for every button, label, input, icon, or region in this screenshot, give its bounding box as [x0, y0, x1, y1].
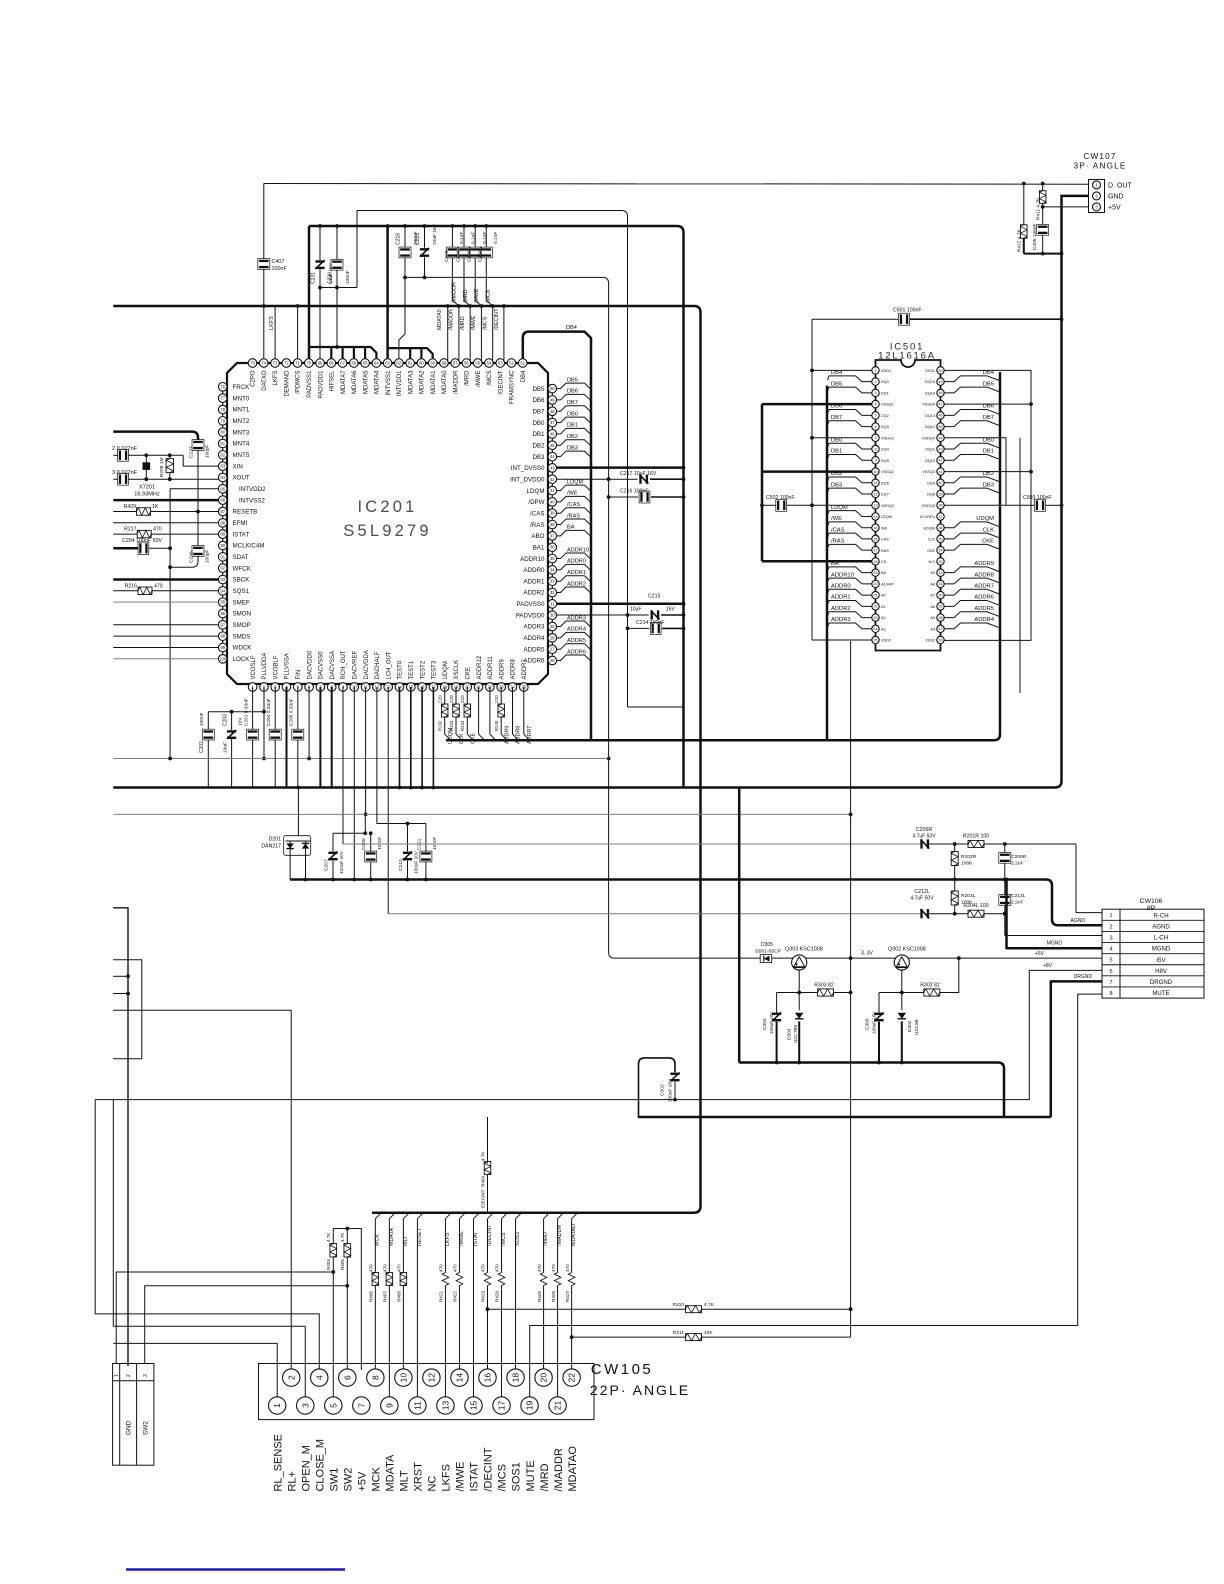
svg-text:100nF: 100nF	[345, 270, 351, 284]
svg-text:330uF 16V: 330uF 16V	[668, 1078, 673, 1102]
svg-text:R427: R427	[565, 1291, 570, 1302]
wire bottom net column x=489.9	[489, 687, 491, 734]
svg-text:/DECINT: /DECINT	[481, 1189, 486, 1208]
wire bottom net column x=512.5 ADDR8	[512, 687, 514, 734]
svg-text:/MADDR: /MADDR	[449, 309, 455, 330]
svg-text:R407: R407	[383, 1291, 388, 1302]
svg-text:ABO: ABO	[531, 533, 544, 540]
svg-text:UDQM: UDQM	[976, 516, 994, 522]
svg-text:UZ3.9B: UZ3.9B	[914, 1019, 919, 1035]
svg-text:DQ9: DQ9	[927, 481, 935, 485]
wire /DECINT pin 53 riser to bus	[503, 306, 505, 364]
svg-text:DB6: DB6	[983, 404, 994, 410]
svg-text:ADDR7: ADDR7	[974, 584, 994, 590]
svg-text:37: 37	[938, 515, 942, 519]
svg-text:18: 18	[873, 560, 877, 564]
wire ground bus y=787.5 up to CW107 GND	[113, 196, 1088, 788]
wire R channel line y=844	[343, 843, 920, 845]
wire CW105 pin 21 column /MADDR	[558, 1213, 564, 1219]
svg-text:VSSQ1: VSSQ1	[881, 403, 894, 407]
svg-text:C502 100nF: C502 100nF	[766, 495, 795, 501]
svg-text:3. 3V: 3. 3V	[861, 951, 873, 957]
svg-text:VSS2: VSS2	[925, 639, 935, 643]
resistor R204L 100	[968, 910, 984, 917]
svg-text:16: 16	[483, 1373, 493, 1383]
wire R303 to +5V rail	[834, 992, 851, 994]
svg-text:100pF: 100pF	[205, 445, 210, 458]
svg-text:TEST0: TEST0	[398, 660, 404, 679]
svg-text:A7: A7	[930, 594, 935, 598]
svg-text:10: 10	[873, 470, 877, 474]
svg-text:C215: C215	[415, 233, 421, 245]
svg-text:20: 20	[539, 1373, 549, 1383]
svg-text:43: 43	[550, 465, 555, 470]
capacitor C216 100nF row y=497	[609, 496, 638, 498]
wire PADVDD0 pin 30 row y=615 with capacitor C215 10uF 16V	[557, 614, 649, 616]
svg-text:470: 470	[481, 1264, 486, 1272]
svg-text:SMDS: SMDS	[233, 633, 251, 640]
zener D303 UZ2.7B	[798, 993, 800, 1011]
svg-text:83: 83	[220, 464, 225, 469]
svg-text:DQ14: DQ14	[925, 391, 935, 395]
capacitor C206R 4.7uF 50V	[920, 839, 929, 848]
capacitor C213L 2.2nF	[1004, 880, 1006, 895]
resistor R412 4.7K	[1023, 184, 1025, 225]
svg-text:RESET: RESET	[417, 1227, 423, 1246]
svg-text:99: 99	[220, 645, 225, 650]
svg-text:DB3: DB3	[831, 482, 842, 488]
wire bottom net column x=523.8 ADDR7	[523, 687, 525, 734]
svg-text:MDATA0: MDATA0	[437, 309, 443, 330]
svg-text:RCH_OUT: RCH_OUT	[341, 650, 347, 679]
svg-text:24: 24	[873, 627, 877, 631]
svg-text:/MCS: /MCS	[487, 371, 493, 386]
svg-text:VCOBLF: VCOBLF	[273, 655, 279, 679]
wire PADVSS1 pin 70 thick riser	[308, 226, 311, 364]
svg-text:43: 43	[938, 447, 942, 451]
capacitor C230 lower lead to ground comb	[336, 288, 338, 348]
svg-text:59: 59	[430, 361, 435, 366]
svg-text:VDDQ3: VDDQ3	[922, 504, 935, 508]
capacitor C304 100uF 10V	[776, 993, 778, 1013]
svg-text:11: 11	[874, 481, 878, 485]
svg-text:79: 79	[220, 418, 225, 423]
svg-text:4.7uF 50V: 4.7uF 50V	[910, 896, 934, 902]
resistor R303 82	[818, 989, 834, 996]
svg-text:ADDR11: ADDR11	[488, 656, 494, 680]
svg-text:BA: BA	[881, 571, 887, 575]
svg-text:78: 78	[220, 407, 225, 412]
svg-text:WE: WE	[881, 526, 888, 530]
svg-text:17: 17	[497, 1401, 507, 1411]
svg-text:C207: C207	[323, 859, 329, 871]
wire MUTE into CW106 pin8	[530, 994, 1102, 1397]
svg-text:33: 33	[550, 579, 555, 584]
svg-text:MDATA: MDATA	[389, 1228, 395, 1246]
svg-text:22: 22	[873, 605, 877, 609]
wire DACVSS0 pin 7 thick	[319, 687, 321, 788]
wire VSSQ4 pin 47 tap	[944, 403, 1031, 405]
wire INT_DVSS0 pin 43 thick to x=683.5	[557, 466, 684, 469]
wire +8V into CW106 pin6 via x=1029.3 and rail y=1099.6	[95, 970, 1102, 1099]
svg-text:CKE: CKE	[471, 733, 477, 744]
svg-text:VSSQ4: VSSQ4	[922, 403, 935, 407]
svg-text:N.C/RFU: N.C/RFU	[920, 515, 936, 519]
svg-text:DEMAND: DEMAND	[284, 370, 290, 397]
svg-text:470: 470	[565, 1264, 570, 1272]
svg-text:C231: C231	[310, 272, 316, 284]
svg-text:16V: 16V	[238, 717, 244, 726]
wire transistor area left rail x=739.2	[738, 788, 741, 1063]
svg-text:SMEF: SMEF	[233, 599, 250, 606]
svg-text:85: 85	[220, 486, 225, 491]
svg-text:8P: 8P	[1147, 905, 1156, 912]
svg-text:/WE: /WE	[567, 491, 578, 497]
svg-text:DQ12: DQ12	[925, 425, 935, 429]
svg-text:32: 32	[550, 590, 555, 595]
svg-text:ADDR6: ADDR6	[974, 595, 994, 601]
wire OPEN_M line to pin 3	[112, 1100, 114, 1327]
svg-text:470: 470	[439, 1264, 444, 1272]
svg-text:+5V: +5V	[1035, 951, 1045, 957]
wire left rail top thick y=431.6 with corner to C227	[113, 432, 198, 440]
wire DACVDD0 pin 6	[308, 687, 310, 759]
wire CLOSE_M line to pin 4	[95, 1100, 319, 1370]
svg-text:31: 31	[938, 582, 942, 586]
svg-text:CW105: CW105	[591, 1361, 654, 1378]
wire PLLVSSA pin 4 thick to ground bus	[286, 687, 288, 788]
capacitor C208 100nF	[370, 833, 372, 852]
wire DACVDDA pin 11	[365, 687, 367, 814]
svg-text:3P· ANGLE: 3P· ANGLE	[1073, 162, 1126, 171]
wire DRGND thick rail y=1117	[639, 1116, 1051, 1119]
svg-text:CKE: CKE	[982, 539, 994, 545]
wire ground comb pins 64-68	[309, 347, 377, 364]
svg-text:DQ5: DQ5	[881, 459, 889, 463]
svg-text:DACVDDA: DACVDDA	[364, 650, 370, 679]
connector left 3P (SW1 GND SW2)	[113, 1364, 154, 1466]
svg-text:NC: NC	[427, 1476, 439, 1492]
svg-text:68: 68	[329, 361, 334, 366]
svg-text:EFMI: EFMI	[233, 520, 248, 527]
svg-text:R233: R233	[449, 720, 454, 731]
svg-text:47: 47	[938, 402, 942, 406]
svg-text:30: 30	[938, 593, 942, 597]
svg-text:C221: C221	[455, 250, 461, 262]
svg-text:100pF: 100pF	[205, 550, 210, 563]
svg-text:D201: D201	[269, 837, 282, 843]
capacitor C202 100nF	[207, 712, 209, 730]
svg-text:50: 50	[550, 386, 555, 391]
svg-text:C302: C302	[660, 1084, 666, 1096]
svg-text:R216: R216	[125, 583, 138, 589]
svg-text:MDATA4: MDATA4	[375, 370, 381, 394]
svg-text:DB1: DB1	[567, 423, 578, 429]
wire DATXO / D.OUT line y=183.5	[264, 183, 1089, 186]
svg-text:15: 15	[469, 1401, 479, 1411]
svg-text:DQ8: DQ8	[927, 493, 935, 497]
wire LOCK pin 100	[113, 658, 218, 660]
capacitor C223 0.1nF	[474, 226, 476, 247]
svg-text:2.2nF: 2.2nF	[1011, 861, 1024, 867]
svg-text:ADDR9: ADDR9	[974, 561, 994, 567]
svg-text:13: 13	[441, 1401, 451, 1411]
svg-text:/MADDR: /MADDR	[553, 1448, 565, 1491]
svg-text:MNT1: MNT1	[233, 407, 250, 414]
svg-text:62: 62	[397, 361, 402, 366]
svg-text:CKE: CKE	[466, 667, 472, 679]
wire DACVREF pin 10 to AGND rail	[353, 687, 355, 880]
svg-text:CKE: CKE	[927, 549, 935, 553]
svg-text:DQ4: DQ4	[881, 448, 889, 452]
svg-text:C218: C218	[395, 233, 401, 245]
svg-text:22P· ANGLE: 22P· ANGLE	[590, 1382, 690, 1398]
svg-text:ISTAT: ISTAT	[233, 531, 250, 538]
svg-text:A0: A0	[881, 594, 886, 598]
svg-text:54: 54	[487, 361, 492, 366]
svg-text:DQ3: DQ3	[881, 425, 889, 429]
svg-text:ADDR10: ADDR10	[520, 556, 545, 563]
svg-text:4: 4	[1109, 947, 1112, 953]
svg-text:LOCK: LOCK	[233, 656, 251, 663]
svg-text:4.7K: 4.7K	[326, 1232, 331, 1242]
wire bottom net column x=478.6	[478, 687, 480, 734]
svg-text:6: 6	[342, 1375, 352, 1380]
svg-text:6: 6	[1109, 969, 1112, 975]
svg-text:R209 1M: R209 1M	[159, 458, 165, 477]
wire CW107 +5V stub	[1043, 206, 1089, 208]
wire x=627.5 to x=683.5 link y=707	[628, 706, 684, 708]
svg-text:CAS: CAS	[881, 538, 889, 542]
svg-text:SBCK: SBCK	[233, 577, 251, 584]
wire VDD decoupling rail y=226 to x=683.5 vertical	[309, 226, 684, 788]
svg-text:PADVDD0: PADVDD0	[516, 612, 545, 619]
svg-text:DB0: DB0	[532, 420, 545, 427]
capacitor C303 100uF 10V	[878, 993, 880, 1013]
svg-text:XSCLK: XSCLK	[454, 660, 460, 680]
svg-text:96: 96	[220, 611, 225, 616]
svg-text:PLLVSSA: PLLVSSA	[285, 653, 291, 679]
capacitor C215 10uF 16V (top)	[424, 226, 426, 248]
svg-text:DB4: DB4	[521, 370, 527, 382]
svg-text:4: 4	[874, 402, 876, 406]
svg-text:R429: R429	[124, 504, 137, 510]
svg-text:DB7: DB7	[532, 408, 545, 415]
svg-text:C217 10uF 16V: C217 10uF 16V	[620, 471, 657, 477]
svg-text:FIN: FIN	[296, 670, 302, 680]
svg-text:5: 5	[1109, 958, 1112, 964]
svg-text:MDATA7: MDATA7	[341, 370, 347, 394]
svg-text:L-CH: L-CH	[1154, 935, 1168, 942]
svg-text:/PDMCS: /PDMCS	[296, 371, 302, 394]
svg-text:91: 91	[220, 554, 225, 559]
svg-text:ADDR3: ADDR3	[524, 624, 546, 631]
svg-text:7: 7	[1109, 980, 1112, 986]
svg-text:C214 100nF: C214 100nF	[636, 620, 665, 626]
svg-text:C501 100nF: C501 100nF	[893, 308, 922, 314]
svg-text:88: 88	[220, 520, 225, 525]
svg-text:R422: R422	[453, 1291, 458, 1302]
svg-text:R404: R404	[326, 1259, 331, 1270]
svg-text:15: 15	[873, 526, 877, 530]
svg-text:C215: C215	[648, 594, 661, 600]
svg-text:SQS1: SQS1	[233, 588, 250, 595]
wire R412/C405 ground tie y=253.6	[1024, 253, 1062, 255]
capacitor C221 0.1nF	[463, 226, 465, 247]
svg-text:C226: C226	[189, 551, 195, 563]
svg-text:DB7: DB7	[831, 415, 842, 421]
svg-text:A9: A9	[930, 571, 935, 575]
svg-text:/MWE: /MWE	[476, 371, 482, 387]
svg-text:C2PO: C2PO	[251, 370, 257, 387]
capacitor C212L 4.7uF 50V	[920, 909, 929, 918]
svg-text:29: 29	[938, 605, 942, 609]
wire CW105 pin 14 column /MWE	[459, 1213, 465, 1219]
wire DACVSSA pin 8 thick	[331, 687, 333, 788]
svg-text:/MWE: /MWE	[455, 1462, 467, 1492]
svg-text:DACHALF: DACHALF	[375, 651, 381, 679]
svg-text:470: 470	[453, 1264, 458, 1272]
svg-text:74: 74	[261, 361, 266, 366]
svg-text:XOUT: XOUT	[233, 475, 250, 482]
svg-text:51: 51	[520, 361, 525, 366]
svg-text:VSSQ2: VSSQ2	[881, 470, 894, 474]
svg-text:73: 73	[273, 361, 278, 366]
svg-text:19: 19	[873, 571, 877, 575]
svg-text:DATXO: DATXO	[262, 370, 268, 391]
svg-text:SW2: SW2	[143, 1421, 150, 1435]
svg-text:7: 7	[356, 1403, 366, 1408]
capacitor C214 100nF row y=628.4	[628, 627, 650, 629]
svg-text:40: 40	[550, 499, 555, 504]
wire MDATA0 pin 58 riser to bus	[447, 306, 449, 364]
svg-text:26: 26	[938, 638, 942, 642]
svg-text:9: 9	[874, 459, 876, 463]
wire +5V vertical x=850.6	[850, 641, 852, 1337]
svg-text:/MADDR: /MADDR	[557, 1225, 563, 1246]
svg-text:3: 3	[300, 1403, 310, 1408]
crystal X7201 16.93MHz	[145, 455, 147, 462]
wire CW105 pin 11 column RESET	[417, 1213, 423, 1219]
svg-text:IC201: IC201	[357, 498, 417, 516]
svg-text:45: 45	[938, 425, 942, 429]
svg-text:DACVREF: DACVREF	[353, 650, 359, 679]
wire CW105 pin 17 column /MCS	[502, 1213, 508, 1219]
svg-text:/CAS: /CAS	[567, 502, 580, 508]
svg-text:+8V: +8V	[1043, 963, 1053, 969]
svg-text:DB3: DB3	[532, 454, 545, 461]
svg-text:ADDR7: ADDR7	[522, 658, 528, 679]
svg-text:FRCK: FRCK	[233, 384, 251, 391]
svg-text:3: 3	[1109, 935, 1112, 941]
svg-text:16.93MHz: 16.93MHz	[134, 492, 160, 498]
wire CW105 pin 13 column LKFS	[445, 1213, 451, 1219]
wire RL+ from left structure to pin 2	[113, 1010, 291, 1370]
svg-text:DB3: DB3	[983, 482, 994, 488]
wire bottom net column x=501.2 ADDR9	[500, 687, 502, 704]
svg-text:46: 46	[550, 431, 555, 436]
svg-text:48: 48	[938, 391, 942, 395]
svg-text:8: 8	[1109, 991, 1112, 997]
svg-text:/MADDR: /MADDR	[453, 370, 459, 394]
resistor R203L 100K	[954, 880, 956, 892]
wire analog rail y=813.5	[113, 813, 850, 815]
svg-text:DQ1: DQ1	[881, 391, 889, 395]
svg-text:C206R: C206R	[916, 827, 932, 833]
svg-text:UZ2.7B9: UZ2.7B9	[793, 1024, 798, 1043]
svg-text:4.7K: 4.7K	[340, 1232, 345, 1242]
svg-text:55: 55	[475, 361, 480, 366]
svg-text:4.7K: 4.7K	[481, 1151, 486, 1161]
wire CW105 pin 15 column ISTAT	[473, 1213, 479, 1219]
svg-text:MCK: MCK	[371, 1466, 383, 1491]
svg-text:TEST3: TEST3	[432, 660, 438, 679]
svg-text:ISTAT: ISTAT	[473, 1231, 479, 1246]
svg-text:100nF: 100nF	[272, 266, 288, 272]
svg-text:CW107: CW107	[1083, 152, 1116, 161]
diode D201 DAN217	[297, 788, 299, 836]
svg-text:21: 21	[873, 593, 877, 597]
svg-text:C303: C303	[864, 1018, 870, 1030]
svg-text:RAS: RAS	[881, 549, 889, 553]
svg-text:ADDR8: ADDR8	[516, 726, 522, 744]
wire bottom net column x=467.3 CKE	[466, 687, 468, 704]
wire IC501 VSS loop right x=1031	[944, 370, 1031, 640]
svg-text:LDQM: LDQM	[567, 479, 584, 485]
memory IC501 body	[876, 360, 941, 651]
svg-text:16V: 16V	[666, 606, 676, 612]
svg-text:VDD1: VDD1	[881, 369, 891, 373]
svg-text:DACVDD0: DACVDD0	[307, 650, 313, 679]
svg-text:D303: D303	[787, 1028, 793, 1040]
svg-text:6: 6	[874, 425, 876, 429]
svg-text:3: 3	[874, 391, 876, 395]
svg-text:67: 67	[340, 361, 345, 366]
resistor R411 4.7K	[1042, 184, 1044, 191]
svg-text:D305: D305	[761, 942, 773, 948]
svg-text:100uF 10V: 100uF 10V	[872, 1011, 877, 1034]
svg-text:100uF 10V: 100uF 10V	[769, 1011, 774, 1034]
wire LKFS from bus to IC201 pin 73	[274, 306, 276, 364]
capacitor C230 100nF	[336, 226, 338, 259]
svg-text:D302: D302	[907, 1020, 913, 1032]
svg-text:/RAS: /RAS	[567, 513, 580, 519]
svg-text:MGND: MGND	[1152, 946, 1171, 953]
svg-text:/CAS: /CAS	[530, 510, 544, 517]
svg-text:DB0: DB0	[567, 411, 578, 417]
svg-text:90: 90	[220, 543, 225, 548]
svg-text:VDDQ4: VDDQ4	[922, 436, 935, 440]
svg-text:ADDR5: ADDR5	[567, 638, 586, 644]
wire PADVDD1 pin 69 riser	[319, 288, 321, 365]
svg-text:C216 100nF: C216 100nF	[620, 489, 649, 495]
wire CW105 pin 18 column SOS1	[516, 1213, 522, 1219]
wire VDD stub row pin 13	[812, 504, 872, 506]
svg-text:C227: C227	[189, 446, 195, 458]
svg-text:DB7: DB7	[983, 415, 994, 421]
wire vertical x=1020 right of IC501	[1019, 438, 1021, 693]
svg-text:89: 89	[220, 532, 225, 537]
svg-text:ADDR2: ADDR2	[524, 590, 546, 597]
svg-text:/MWE: /MWE	[471, 315, 477, 330]
capacitor C229 0.1nF	[451, 226, 453, 247]
svg-text:DB6: DB6	[567, 389, 578, 395]
svg-text:MNT5: MNT5	[233, 452, 250, 459]
svg-text:ADDR3: ADDR3	[831, 617, 851, 623]
svg-text:10uF 16V: 10uF 16V	[432, 223, 438, 245]
svg-text:C405 100nF: C405 100nF	[1032, 224, 1038, 250]
IC501 right pins 50-26	[920, 367, 945, 644]
